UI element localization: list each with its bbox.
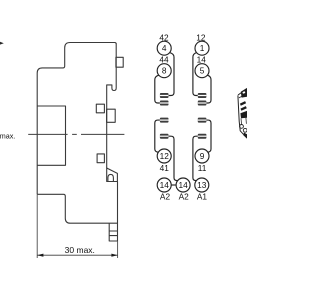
side-view right upper edge with hook xyxy=(107,44,117,169)
3D top dark face xyxy=(241,88,247,98)
3D bottom dark blob xyxy=(243,133,247,139)
3D top face hole xyxy=(242,91,245,94)
svg-text:13: 13 xyxy=(197,180,207,190)
tab detail A xyxy=(116,57,123,67)
recess rectangle xyxy=(37,106,65,165)
terminal circle 8 xyxy=(157,64,171,78)
svg-text:5: 5 xyxy=(200,66,205,76)
terminal circle 9 xyxy=(195,149,209,163)
terminal circle 14 middle xyxy=(176,178,190,192)
clamp1 xyxy=(160,93,169,98)
latch inner arch xyxy=(108,174,114,181)
dimension line 30 max xyxy=(37,254,117,256)
3D zigzag mark lower xyxy=(241,106,247,111)
side-view right lower edge xyxy=(117,182,119,242)
small square detail B xyxy=(96,104,104,113)
terminal circle 5 xyxy=(195,64,209,78)
svg-text:14: 14 xyxy=(160,180,170,190)
dimension arrow left xyxy=(37,254,43,257)
svg-text:30 max.: 30 max. xyxy=(65,245,95,255)
svg-text:4: 4 xyxy=(162,43,167,53)
svg-text:41: 41 xyxy=(160,163,170,173)
wire W3 clamp5 to circle12 xyxy=(155,120,160,152)
3D front top edge xyxy=(239,95,245,98)
terminal circle 14 left xyxy=(157,178,171,192)
3D screw circle lower xyxy=(243,128,247,132)
svg-text:max.: max. xyxy=(0,132,15,141)
clamp4 xyxy=(198,101,207,106)
right extension line xyxy=(117,241,119,258)
wire W7 clamp7 to circle9 xyxy=(206,120,211,152)
3D screw circle upper xyxy=(240,125,244,129)
svg-text:12: 12 xyxy=(160,151,170,161)
svg-text:A2: A2 xyxy=(160,191,171,201)
isometric 3D thumbnail (cropped at right edge) xyxy=(238,88,247,138)
svg-text:42: 42 xyxy=(159,33,169,43)
svg-text:A1: A1 xyxy=(197,191,208,201)
terminal circle 4 xyxy=(157,41,171,55)
wire W8 clamp8 to circle13 xyxy=(193,136,198,180)
terminal circle 1 xyxy=(195,41,209,55)
wire W5 circle1 to clamp3 xyxy=(193,53,198,96)
side-view body top and left outline xyxy=(37,43,116,195)
small square detail D xyxy=(97,154,104,163)
3D lower face edges xyxy=(241,118,246,125)
3D dark band xyxy=(240,111,247,118)
left extension line xyxy=(36,194,38,258)
wire W6 circle5 to clamp4 xyxy=(206,75,211,103)
clamp3 xyxy=(198,93,207,98)
svg-text:A2: A2 xyxy=(179,191,190,201)
clamp8 xyxy=(198,134,207,139)
3D zigzag mark upper xyxy=(240,101,246,106)
terminal comb detail xyxy=(109,223,117,241)
svg-text:12: 12 xyxy=(196,33,206,43)
wire W2 circle8 to clamp2 xyxy=(155,75,160,103)
svg-text:9: 9 xyxy=(200,151,205,161)
terminal circle 12 xyxy=(157,149,171,163)
svg-text:1: 1 xyxy=(200,43,205,53)
centerline (dash-dot) xyxy=(28,133,124,135)
latch detail xyxy=(107,168,118,182)
clamp6 xyxy=(160,134,169,139)
cropped arrow mark top-left xyxy=(0,42,4,45)
wire W4 clamp6 to circle14 middle xyxy=(169,136,178,180)
clamp7 xyxy=(198,118,207,123)
rectangle detail C xyxy=(107,109,116,122)
svg-text:44: 44 xyxy=(159,54,169,64)
wire W1 circle4 to clamp1 xyxy=(169,53,175,96)
clamp5 xyxy=(160,118,169,123)
terminal circle 13 xyxy=(195,178,209,192)
wiring diagram xyxy=(155,41,211,192)
svg-text:11: 11 xyxy=(198,163,207,173)
svg-text:14: 14 xyxy=(197,54,207,64)
clamp2 xyxy=(160,101,169,106)
svg-text:8: 8 xyxy=(162,66,167,76)
link between circles 14-14 xyxy=(171,184,176,186)
side-view body bottom-left step outline xyxy=(37,194,117,223)
3D outline xyxy=(238,89,247,139)
dimension arrow right xyxy=(111,254,117,257)
svg-text:14: 14 xyxy=(178,180,188,190)
